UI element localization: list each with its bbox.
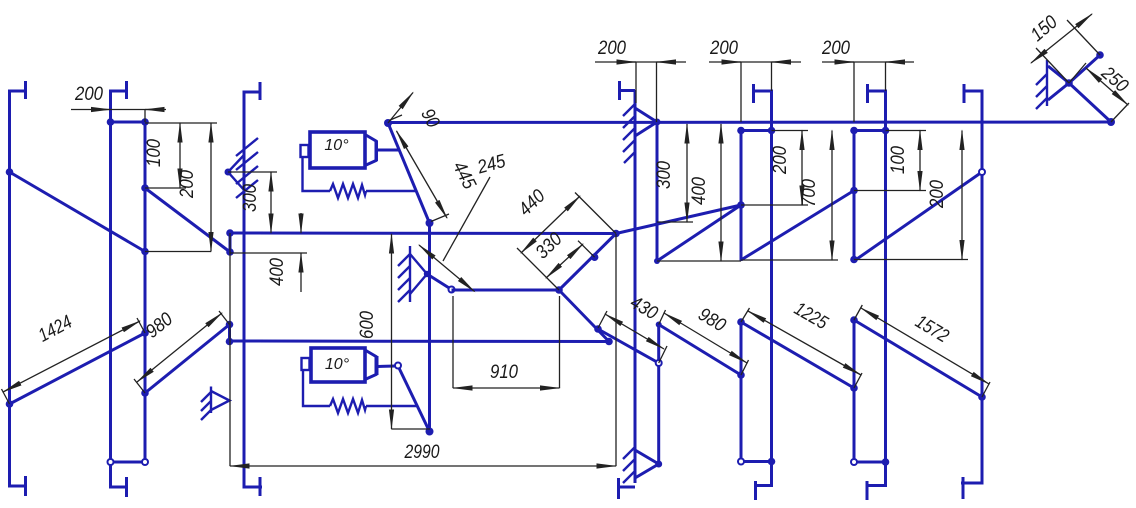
vertical rod x429 (428, 223, 431, 432)
motor M2 body (302, 348, 396, 382)
motor M1 body (301, 132, 401, 168)
pivot circle M2 (395, 363, 401, 369)
svg-text:600: 600 (357, 311, 378, 339)
dim 150 (1027, 11, 1100, 83)
pair3 left vertical (853, 131, 856, 463)
link S1 (10, 172, 146, 252)
spring wire M2 (303, 370, 330, 406)
dim 430 (598, 292, 667, 363)
dim 90 (388, 93, 444, 132)
svg-text:200: 200 (709, 38, 738, 59)
wire vertical rail V1 (10, 81, 28, 496)
pivot triangle top (635, 108, 657, 136)
link S2 (145, 188, 230, 252)
right vertical x982 (961, 84, 982, 499)
node column x230 (228, 233, 232, 342)
ground support center hatched (398, 246, 427, 302)
vertical x658 (657, 325, 660, 465)
dim 400 left (230, 213, 307, 292)
link support to circle (427, 274, 452, 290)
wire vertical rail V3 (111, 122, 146, 462)
dim 400 ladder1 (657, 124, 741, 261)
pivot triangle bottom (635, 450, 659, 478)
link 430 (598, 329, 659, 363)
dim 200 top3 (821, 38, 914, 122)
ground support left-bottom (201, 387, 230, 421)
ladder D2 (741, 191, 854, 261)
dim 100 left (144, 123, 217, 188)
shallow strut to pair2 (616, 205, 741, 234)
wall column x635 with hatches (617, 81, 635, 499)
dim 250 (1069, 62, 1132, 122)
beam y290 (452, 289, 560, 292)
dim 700 ladder2 (741, 131, 838, 261)
circle node x658 (656, 360, 662, 366)
svg-text:400: 400 (689, 177, 710, 205)
strut 150 (1069, 55, 1100, 83)
dim 200 top-left (71, 84, 166, 122)
pair2 connector (741, 129, 772, 132)
svg-text:200: 200 (177, 170, 198, 199)
link S4 980 (145, 325, 230, 394)
pair3 connector (854, 129, 886, 132)
wire spring to crank M2 (366, 405, 417, 407)
svg-text:200: 200 (770, 146, 791, 175)
wire spring to crank M1 (366, 190, 416, 192)
ground support mid-left hatched (228, 138, 258, 198)
strut 1572 (854, 320, 982, 397)
wire vertical rail V4 (244, 82, 262, 496)
link S3 1424 (10, 333, 146, 404)
pair2 right vertical (754, 84, 772, 500)
spring M2 (330, 399, 366, 413)
svg-text:100: 100 (888, 146, 909, 174)
pair2 bottom join (741, 460, 772, 463)
crank upper (388, 123, 430, 223)
dim 1572 (854, 305, 990, 397)
svg-text:100: 100 (144, 139, 165, 167)
ladder D1 (657, 205, 741, 261)
dim 100 ladder3 (854, 131, 926, 191)
dim 330 (532, 229, 595, 278)
svg-text:200: 200 (821, 38, 850, 59)
right top support (1036, 60, 1069, 109)
spring wire M1 (303, 157, 331, 191)
nodes open (108, 169, 986, 465)
svg-text:910: 910 (490, 362, 518, 383)
dim 245 (419, 151, 508, 292)
ladder D3 (854, 172, 982, 261)
dim 980 right (659, 304, 749, 375)
dim 200 ladder2 (741, 131, 808, 206)
diag to lower beam end (559, 290, 609, 342)
svg-text:300: 300 (654, 161, 675, 189)
svg-text:2990: 2990 (404, 442, 440, 463)
dim 200 left vertical (145, 123, 211, 252)
strut 250 (1069, 83, 1111, 122)
svg-text:400: 400 (267, 258, 288, 286)
dim 300 ladder1 (654, 124, 693, 222)
spring M1 (330, 184, 366, 198)
pair3 right vertical (866, 84, 886, 500)
dim 910 (453, 296, 560, 388)
main top beam (388, 121, 1111, 125)
strut 1225 (741, 322, 854, 388)
dim 200 top1 (595, 38, 686, 122)
dim 200 ladder3 (854, 131, 968, 260)
svg-text:200: 200 (927, 180, 948, 209)
apex vertical x657 (656, 122, 659, 261)
dim 600 (357, 234, 430, 429)
wire vertical rail V2 (111, 81, 129, 497)
svg-text:300: 300 (240, 184, 261, 212)
svg-text:10°: 10° (325, 356, 350, 373)
pair3 bottom join (854, 461, 886, 464)
dim 980 left (134, 309, 230, 393)
dim 1424 (2, 312, 146, 404)
dim 440 (515, 186, 616, 290)
crank lower (399, 368, 430, 432)
dim 2990 (230, 233, 616, 466)
dim 200 top2 (709, 38, 801, 122)
svg-text:10°: 10° (324, 137, 349, 154)
dim 445 (389, 115, 480, 222)
svg-text:200: 200 (597, 38, 626, 59)
pair2 left vertical (740, 131, 743, 462)
strut 980 right (659, 325, 741, 376)
circle node center (449, 287, 455, 293)
svg-text:700: 700 (799, 179, 820, 207)
main middle beam (230, 232, 616, 236)
V strut lower (559, 234, 616, 291)
svg-text:200: 200 (74, 84, 103, 105)
nodes filled (6, 51, 1115, 467)
dim 300 left (228, 172, 277, 233)
dim 1225 (741, 298, 862, 388)
main lower beam (230, 340, 609, 344)
